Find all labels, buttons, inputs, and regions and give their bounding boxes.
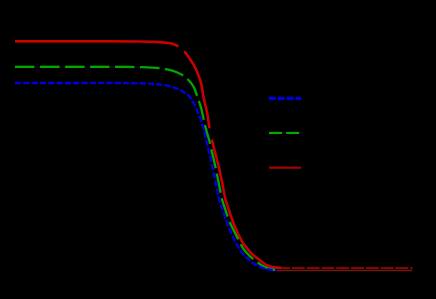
blue dashed curve <box>15 83 277 270</box>
legend: blue dashed sample <box>269 97 301 100</box>
black annotation circle 1 on red curve <box>177 45 185 53</box>
black annotation circle 2 on red curve <box>203 128 215 140</box>
legend: green dashed sample <box>269 132 299 134</box>
legend: red solid sample <box>269 167 301 169</box>
dark combined floor line (green+blue asymptote) <box>272 270 413 272</box>
green dashed curve <box>15 67 280 270</box>
red curve floor (dim dashed continuation) <box>277 267 413 269</box>
red solid curve <box>15 41 281 267</box>
